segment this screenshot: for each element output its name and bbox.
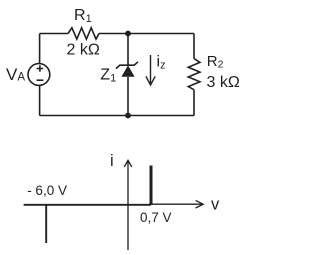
wire node A to top-right corner (128, 33, 194, 35)
node B junction dot (125, 113, 131, 119)
wire bottom right segment (128, 115, 194, 117)
wire zener lower (127, 77, 129, 116)
svg-text:2 kΩ: 2 kΩ (67, 42, 100, 59)
resistor R2 (188, 59, 200, 90)
wire zener upper (127, 34, 129, 66)
VA plus sign (37, 65, 44, 71)
svg-text:R1: R1 (74, 7, 92, 25)
wire R1 to node A (99, 33, 128, 35)
zener Z1 cathode bar with hooks (116, 62, 138, 69)
svg-text:v: v (211, 196, 220, 214)
svg-text:i: i (110, 152, 114, 170)
resistor R1 (68, 28, 99, 39)
svg-text:R2: R2 (207, 53, 224, 71)
zener characteristic forward segment at 0.7V (150, 166, 153, 205)
graph i axis arrowhead (124, 160, 132, 167)
svg-text:VA: VA (6, 65, 25, 84)
iz arrowhead (146, 76, 155, 85)
graph v axis arrowhead (196, 200, 204, 208)
zener characteristic breakdown segment at -6V (45, 204, 47, 243)
wire right side lower (193, 90, 195, 116)
svg-text:iz: iz (157, 54, 166, 72)
wire top-left segment (40, 33, 68, 35)
VA minus sign (37, 79, 44, 81)
zener characteristic zero-current segment (24, 204, 151, 206)
node A junction dot (125, 31, 131, 37)
iz current arrow line (150, 55, 152, 84)
wire left side upper (39, 34, 41, 64)
wire right side upper (193, 34, 195, 59)
svg-text:- 6,0 V: - 6,0 V (27, 183, 67, 198)
graph v axis (149, 203, 203, 205)
graph i axis (127, 161, 129, 251)
wire left side lower (39, 86, 41, 116)
voltage source VA circle (28, 64, 50, 86)
svg-text:0,7 V: 0,7 V (140, 210, 172, 225)
zener Z1 triangle (121, 65, 134, 76)
svg-text:3 kΩ: 3 kΩ (207, 74, 240, 91)
svg-text:Z1: Z1 (100, 67, 116, 85)
wire bottom left segment (40, 115, 128, 117)
